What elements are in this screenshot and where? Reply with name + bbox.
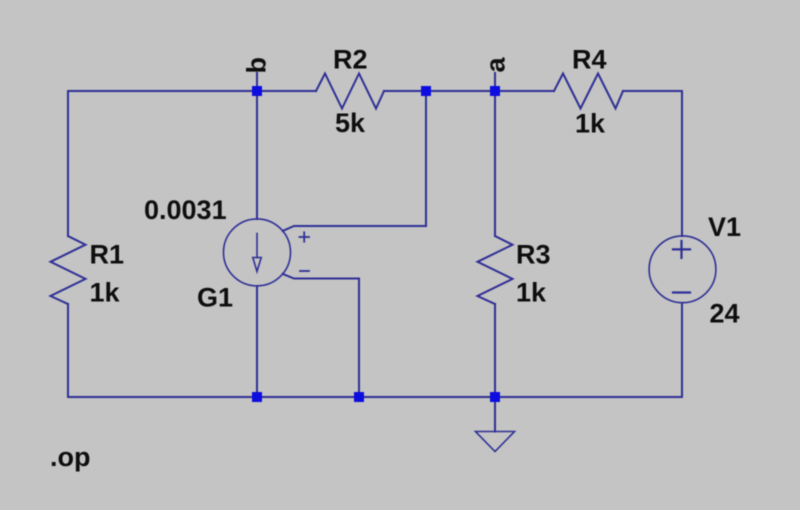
svg-text:b: b — [242, 57, 272, 74]
svg-text:24: 24 — [710, 299, 740, 329]
svg-text:0.0031: 0.0031 — [144, 195, 227, 225]
svg-text:R2: R2 — [333, 45, 368, 75]
svg-text:.op: .op — [50, 442, 91, 472]
svg-text:G1: G1 — [197, 283, 233, 313]
svg-text:1k: 1k — [575, 109, 606, 139]
svg-text:R1: R1 — [90, 240, 125, 270]
svg-text:1k: 1k — [90, 278, 121, 308]
svg-text:V1: V1 — [708, 212, 741, 242]
svg-text:5k: 5k — [335, 108, 366, 138]
svg-text:R4: R4 — [572, 45, 607, 75]
svg-text:a: a — [481, 57, 511, 73]
svg-text:R3: R3 — [516, 240, 551, 270]
svg-text:1k: 1k — [516, 278, 547, 308]
